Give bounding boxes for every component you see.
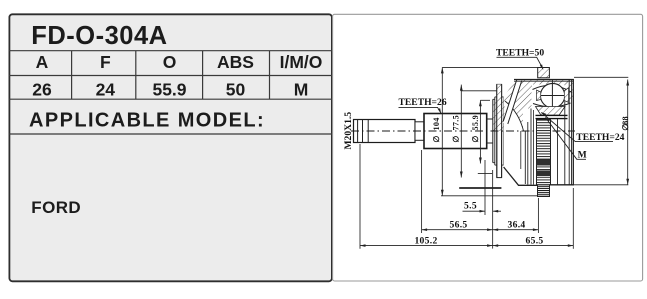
neck before boot grooves <box>487 119 493 143</box>
svg-text:TEETH=50: TEETH=50 <box>496 48 544 59</box>
race shoulder lines <box>536 114 568 116</box>
cage arc bottom <box>533 103 571 107</box>
ring caps <box>493 97 504 165</box>
M leader <box>546 118 587 160</box>
thread runout lines <box>357 120 359 143</box>
65.5 arrows <box>493 244 499 247</box>
drawing box <box>333 14 643 281</box>
ring lines <box>492 99 494 162</box>
flange ring (dia 77.5) <box>497 84 502 177</box>
svg-text:F: F <box>100 52 111 72</box>
105.2 arrows <box>360 244 366 247</box>
56.5 left ext <box>421 150 423 233</box>
svg-text:∅: ∅ <box>621 123 630 130</box>
dia104 arrows <box>441 67 444 73</box>
svg-text:O: O <box>163 52 177 72</box>
dia77.5 top ext tick <box>461 90 497 92</box>
svg-text:77.5: 77.5 <box>452 115 461 131</box>
svg-text:104: 104 <box>432 117 441 130</box>
leader lines <box>399 57 614 159</box>
dia88 bottom ext <box>573 184 628 186</box>
svg-text:FORD: FORD <box>31 198 81 217</box>
svg-text:24: 24 <box>96 80 116 100</box>
dia104 dim line <box>441 67 443 195</box>
teeth50 leader <box>497 57 543 68</box>
spline shaft body <box>424 114 487 149</box>
svg-text:FD-O-304A: FD-O-304A <box>31 22 167 50</box>
36.4 right ext <box>537 198 539 233</box>
boot groove rings <box>493 99 504 162</box>
bell hatch region <box>504 80 574 132</box>
stem spline band <box>537 120 551 185</box>
svg-text:M20X1.5: M20X1.5 <box>343 112 354 150</box>
dia77.5 dim line <box>460 85 462 178</box>
shaft neck <box>415 122 424 141</box>
mouth cavity white <box>504 101 524 131</box>
dia55.9 dim line <box>479 100 481 163</box>
cage section left of ball <box>537 90 541 101</box>
teeth24 leader <box>542 113 614 142</box>
arrowheads <box>360 67 629 247</box>
dia88 top ext <box>574 76 628 78</box>
bottom abs tooth <box>538 185 550 197</box>
36.4 arrows <box>493 228 499 231</box>
row line under APPLICABLE MODEL <box>9 133 333 135</box>
105.2 left ext <box>359 144 361 249</box>
teeth26 leader <box>399 107 441 112</box>
svg-text:∅: ∅ <box>471 135 480 142</box>
56.5 arrows <box>422 228 428 231</box>
dia77.5 arrows <box>460 85 463 91</box>
svg-text:50: 50 <box>226 80 246 100</box>
svg-text:105.2: 105.2 <box>414 235 437 246</box>
top abs tooth <box>538 68 550 78</box>
main centerline <box>351 130 575 132</box>
dia88 arrows <box>626 80 629 86</box>
105.2/65.5 dim line <box>360 245 573 247</box>
5.5 arrows (outside pointing in) <box>480 210 486 213</box>
table box <box>9 14 333 281</box>
svg-text:55.9: 55.9 <box>152 80 186 100</box>
body outline <box>504 80 574 186</box>
column lines <box>71 51 73 99</box>
ball horizontal centerline <box>541 95 568 97</box>
chamfer white band <box>505 79 519 124</box>
mouth lip outline <box>505 101 524 131</box>
cage section right of ball <box>564 88 568 103</box>
ball <box>540 83 564 107</box>
5.5 left ext <box>484 160 486 215</box>
svg-text:5.5: 5.5 <box>464 201 477 212</box>
svg-text:65.5: 65.5 <box>526 235 544 246</box>
ball vertical centerline <box>551 80 553 111</box>
5.5 dim line <box>463 210 486 212</box>
row line under title <box>9 50 333 52</box>
svg-text:A: A <box>36 52 49 72</box>
dia88 dim line <box>627 80 629 185</box>
56.5/36.4 dim line <box>422 229 539 231</box>
row line under values <box>9 98 333 100</box>
ball pocket white <box>532 85 564 109</box>
svg-text:55.9: 55.9 <box>471 115 480 131</box>
dia55.9 top ext tick <box>480 99 490 101</box>
inner pocket vertical lines <box>524 131 526 184</box>
svg-text:APPLICABLE MODEL:: APPLICABLE MODEL: <box>29 110 265 132</box>
inner race wedge <box>536 107 566 116</box>
shaft threaded section <box>354 120 416 143</box>
svg-text:∅: ∅ <box>432 135 441 142</box>
svg-text:36.4: 36.4 <box>508 220 526 231</box>
65.5 right ext <box>572 188 574 249</box>
dia55.9 bottom ext tick <box>478 173 492 175</box>
dia55.9 arrows <box>479 100 482 106</box>
svg-text:TEETH=24: TEETH=24 <box>576 132 624 143</box>
bell body fill <box>504 80 574 186</box>
svg-text:ABS: ABS <box>217 52 254 72</box>
svg-text:∅: ∅ <box>452 135 461 142</box>
svg-text:M: M <box>294 80 309 100</box>
thick aux line <box>459 187 501 189</box>
cage arc top <box>533 85 573 92</box>
svg-text:I/M/O: I/M/O <box>280 52 323 72</box>
svg-text:26: 26 <box>32 80 52 100</box>
row line under headers <box>9 75 333 77</box>
svg-text:56.5: 56.5 <box>450 219 468 230</box>
leader arrow tips <box>438 108 441 114</box>
svg-text:TEETH=26: TEETH=26 <box>399 97 447 108</box>
dia104 top ext <box>442 66 537 68</box>
5.5 right ext long <box>492 170 494 249</box>
dia104 bottom ext <box>441 195 538 197</box>
svg-text:M: M <box>578 150 587 161</box>
